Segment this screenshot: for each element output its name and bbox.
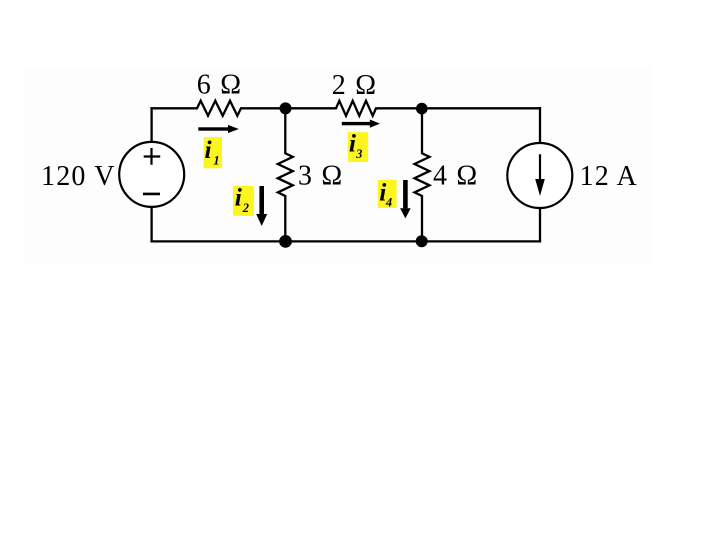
svg-text:i: i — [235, 183, 242, 212]
svg-text:i: i — [205, 135, 212, 164]
svg-text:2: 2 — [242, 201, 249, 215]
svg-text:3 Ω: 3 Ω — [298, 160, 343, 191]
svg-text:1: 1 — [213, 153, 219, 167]
svg-text:2 Ω: 2 Ω — [332, 70, 377, 101]
svg-text:120 V: 120 V — [41, 161, 116, 192]
svg-text:i: i — [349, 128, 356, 157]
svg-text:3: 3 — [355, 147, 362, 161]
svg-text:4 Ω: 4 Ω — [433, 160, 478, 191]
svg-text:12 A: 12 A — [580, 161, 638, 192]
svg-text:6 Ω: 6 Ω — [197, 70, 242, 101]
svg-text:4: 4 — [385, 195, 392, 209]
